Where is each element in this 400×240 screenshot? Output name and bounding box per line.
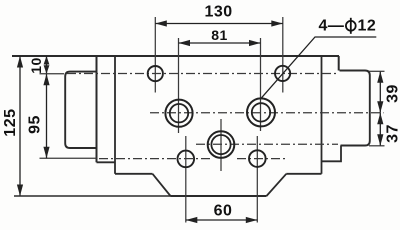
witness line 95 bottom (40, 157, 98, 159)
dimension 37 line (379, 113, 381, 146)
left bottom step (97, 161, 116, 163)
svg-text:12: 12 (358, 18, 377, 35)
witness line 125 bottom (14, 195, 171, 197)
centerline/witness vertical hole bottom-left (185, 136, 187, 223)
centerline/witness vertical port right (260, 38, 262, 131)
dimension 130 arrow right (271, 20, 283, 26)
witness line 37 bottom (369, 145, 385, 147)
port left inner (170, 104, 188, 122)
dimension 125 line (19, 56, 21, 196)
centerline bottom-right hole horizontal (237, 158, 288, 160)
hole top-right phi12 (275, 66, 290, 81)
dimension 81 arrow right (249, 40, 261, 46)
dimension 60 arrow left (186, 217, 198, 223)
leader line 4-phi12 (262, 37, 377, 98)
label phi symbol (346, 21, 356, 31)
flat bottom edge (171, 195, 267, 197)
bottom profile left horizontal (115, 173, 153, 175)
dimension 60 line (186, 219, 257, 221)
centerline vertical center port (220, 119, 222, 171)
witness line 39 top (369, 70, 385, 72)
dimension 10 arrow bottom (44, 65, 50, 74)
dimension 130 arrow left (155, 20, 167, 26)
dimension 81 arrow left (179, 40, 191, 46)
svg-text:95: 95 (27, 115, 44, 134)
dimension 125 arrow top (17, 56, 23, 68)
port left outer (165, 100, 192, 127)
svg-text:81: 81 (211, 27, 228, 43)
dimension 95 arrow top (43, 74, 49, 86)
dimension 37 arrow top (377, 113, 383, 125)
svg-text:10: 10 (28, 57, 44, 74)
centerline middle row horizontal (150, 112, 384, 114)
hole bottom-right phi12 (249, 150, 266, 167)
centerline/witness vertical hole top-left (154, 17, 156, 93)
dimension 95 arrow bottom (43, 147, 49, 159)
svg-text:4—: 4— (319, 18, 345, 35)
centerline/witness vertical hole bottom-right (256, 136, 258, 223)
internal vertical left (114, 56, 116, 174)
bottom left chamfer diagonal (153, 174, 171, 196)
centerline/witness vertical hole top-right (282, 17, 284, 93)
svg-text:125: 125 (2, 108, 19, 136)
bottom right chamfer diagonal (267, 174, 287, 196)
dimension 10 line (46, 56, 48, 74)
bottom profile right horizontal (286, 173, 321, 175)
dimension 39 arrow top (377, 71, 383, 83)
svg-text:60: 60 (214, 203, 233, 220)
dimension 81 line (179, 42, 261, 44)
right top step vertical (338, 56, 340, 71)
port center outer (208, 131, 235, 158)
body top edge with left witness extension (12, 55, 339, 57)
hole bottom-left phi12 (178, 151, 195, 168)
dimension 125 arrow bottom (17, 185, 23, 197)
svg-text:130: 130 (204, 4, 232, 21)
dimension 60 arrow right (246, 217, 257, 223)
dimension 10 arrow top (44, 56, 50, 65)
dimension 39 line (379, 71, 381, 112)
hole top-left phi12 (148, 66, 163, 81)
centerline top row horizontal (67, 73, 338, 75)
svg-text:39: 39 (385, 84, 400, 103)
internal vertical right (321, 56, 323, 174)
right bottom step (322, 146, 342, 162)
centerline/witness vertical port left (178, 38, 180, 133)
dimension 130 line (155, 23, 282, 25)
centerline bottom-left hole horizontal (99, 158, 213, 160)
body left edge (96, 56, 98, 162)
svg-text:37: 37 (385, 124, 400, 143)
port right inner (252, 103, 270, 121)
dimension 95 line (46, 74, 48, 159)
dimension 37 arrow bottom (377, 134, 383, 146)
left end cap (65, 72, 97, 148)
witness line 95 top (40, 73, 65, 75)
dimension 39 arrow bottom (377, 101, 383, 113)
right end protrusion (340, 71, 370, 146)
centerline center port horizontal (196, 143, 338, 145)
port center inner (211, 135, 230, 154)
port right outer (247, 98, 275, 126)
